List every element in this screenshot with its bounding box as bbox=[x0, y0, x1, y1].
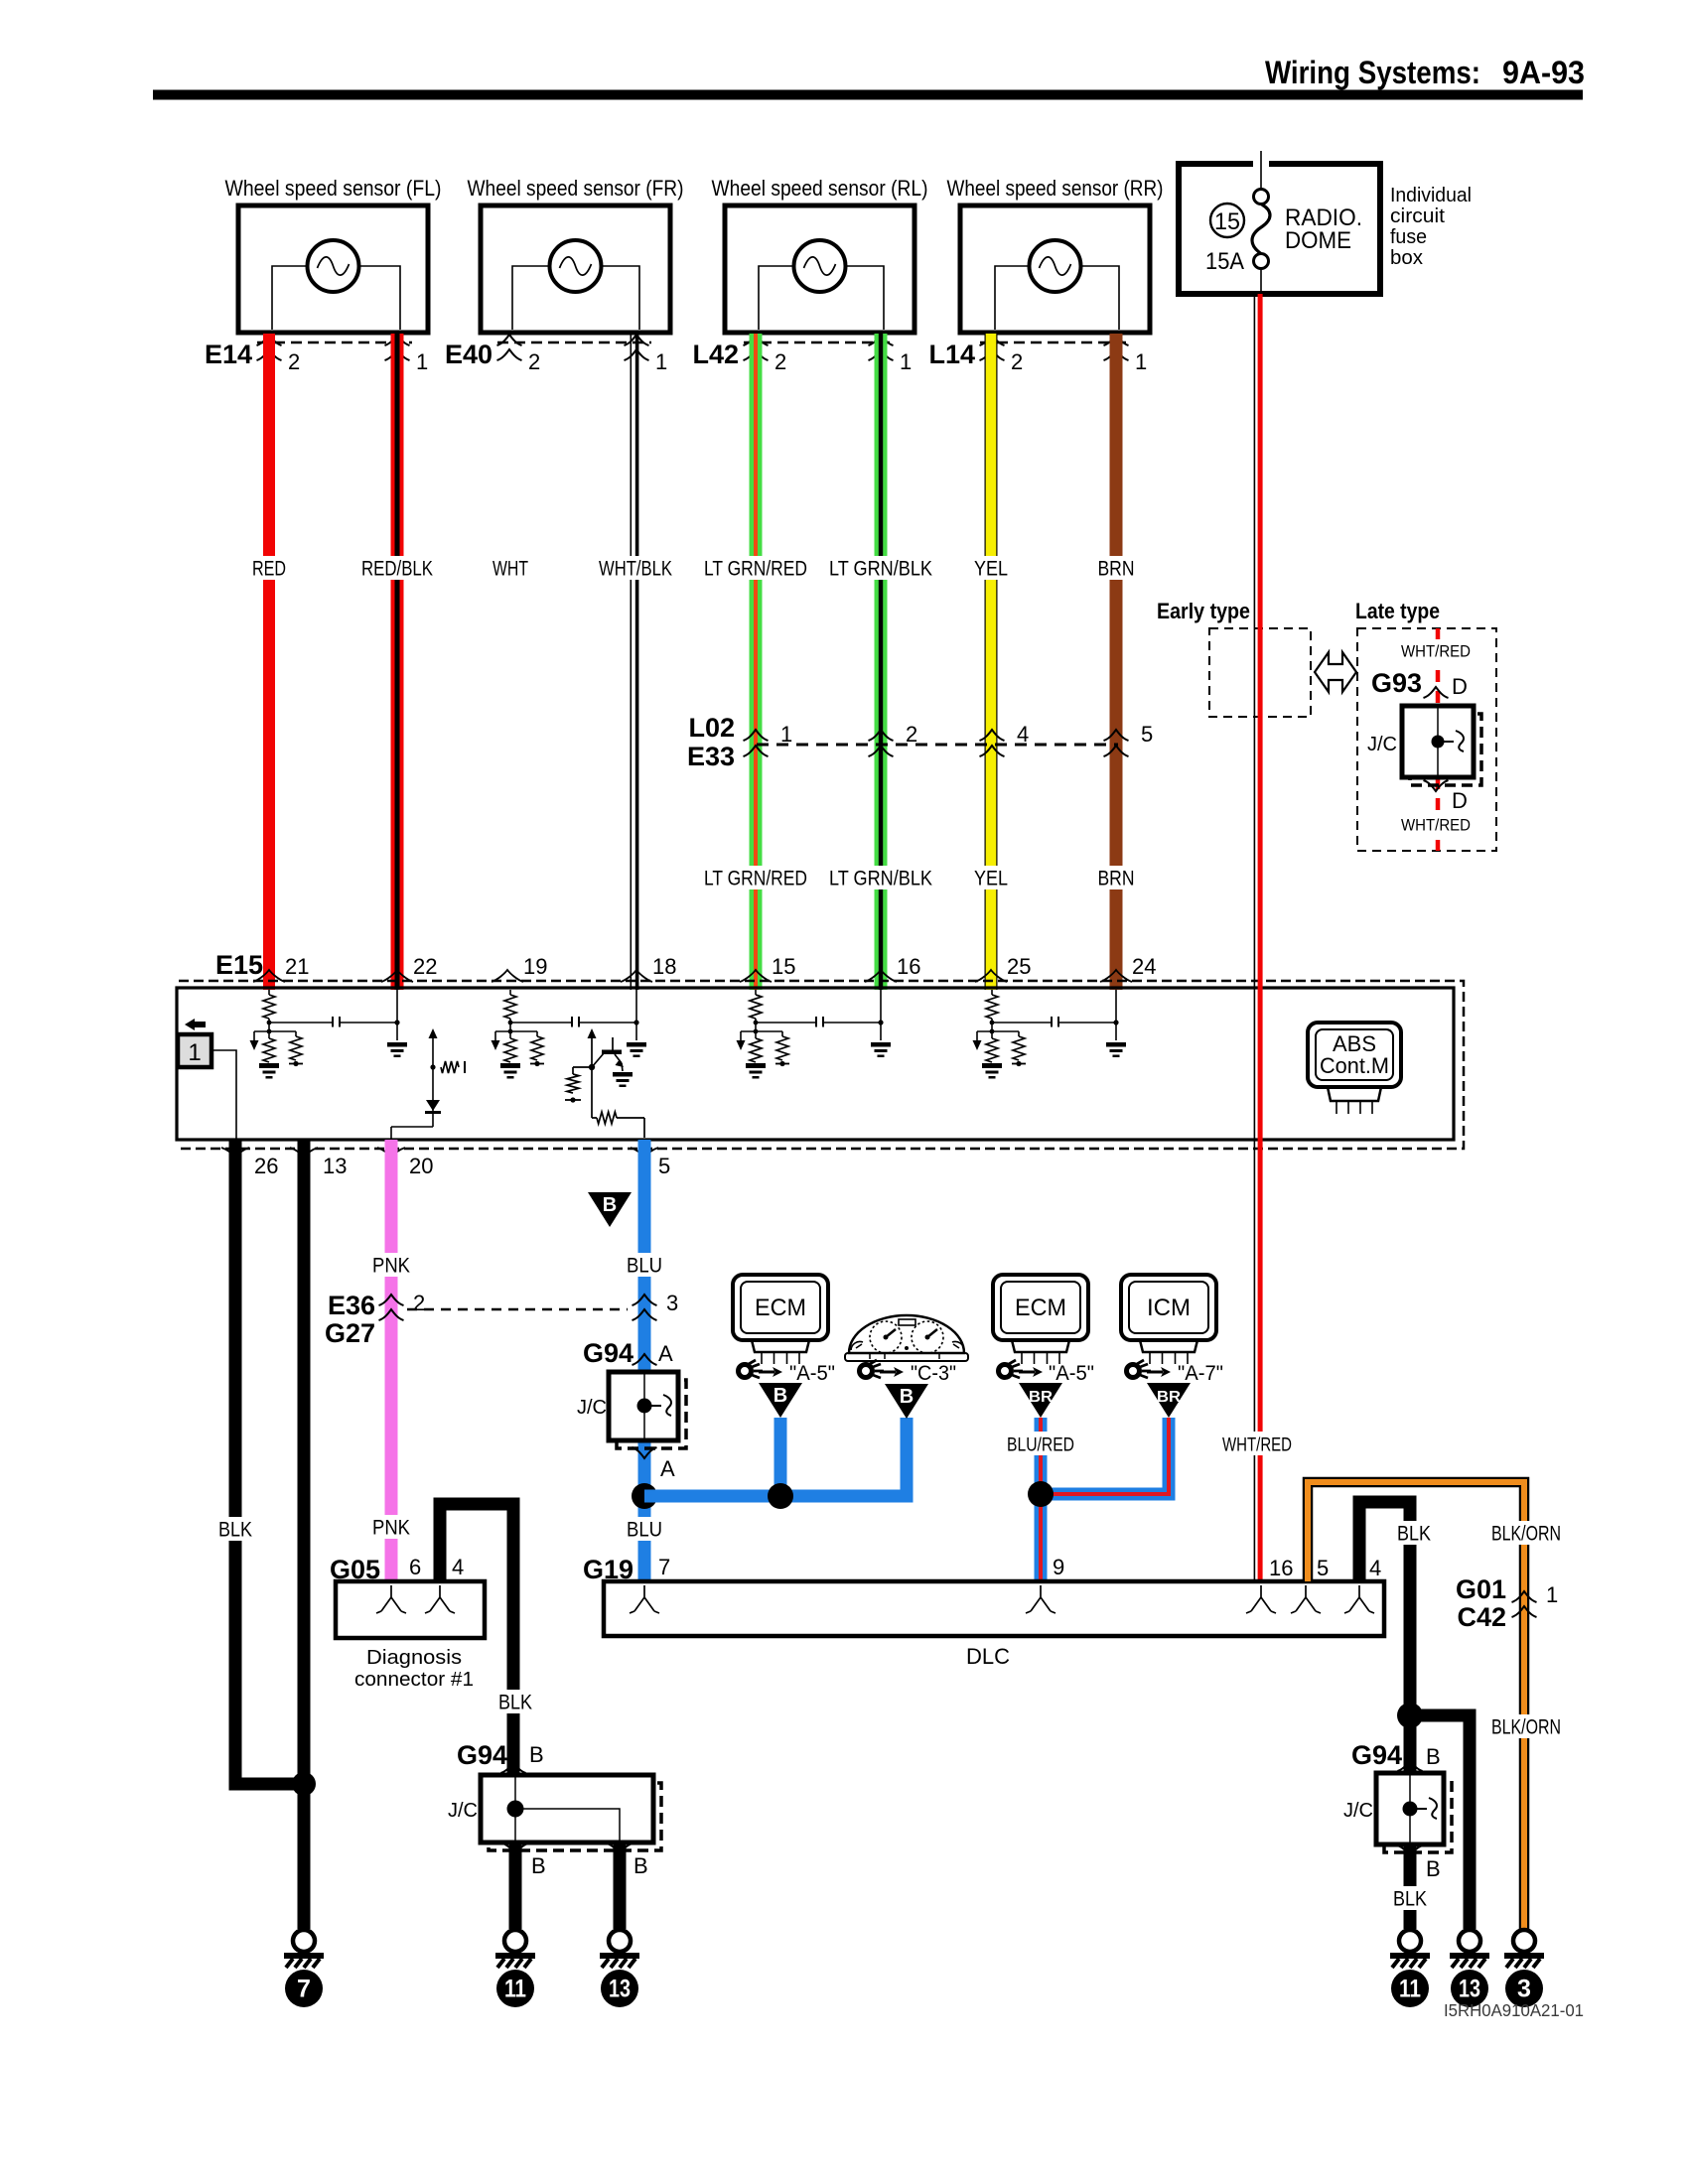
wire BLK (DLC-4) bbox=[1359, 1502, 1410, 1773]
svg-text:E40: E40 bbox=[445, 340, 492, 369]
fuse 15 RADIO.DOME bbox=[1260, 151, 1262, 292]
ground 3 bbox=[1513, 1930, 1535, 1952]
ref icon A-7 (ICM) bbox=[1127, 1360, 1152, 1378]
wire BLK pin26 bbox=[235, 1140, 304, 1784]
svg-text:DOME: DOME bbox=[1285, 227, 1351, 254]
DLC pin bbox=[1246, 1585, 1276, 1613]
svg-text:13: 13 bbox=[1459, 1976, 1480, 2003]
E15 pin 22 bbox=[381, 970, 413, 982]
svg-text:3: 3 bbox=[666, 1291, 678, 1315]
wire label BLK bbox=[214, 1517, 256, 1541]
svg-text:15A: 15A bbox=[1205, 248, 1244, 275]
svg-text:25: 25 bbox=[1007, 954, 1031, 979]
ground 13 bbox=[609, 1930, 631, 1952]
svg-text:D: D bbox=[1452, 674, 1468, 699]
junction BLU bbox=[632, 1483, 657, 1509]
svg-text:G05: G05 bbox=[330, 1555, 380, 1584]
svg-text:Cont.M: Cont.M bbox=[1320, 1053, 1389, 1078]
wire label PNK bbox=[368, 1253, 414, 1277]
pin 2 bbox=[497, 335, 522, 345]
svg-text:6: 6 bbox=[409, 1555, 421, 1579]
DLC pin bbox=[630, 1585, 659, 1613]
svg-text:"C-3": "C-3" bbox=[911, 1362, 956, 1385]
BLU bus wire bbox=[644, 1418, 907, 1496]
header rule bbox=[153, 90, 1583, 100]
svg-text:Wheel speed sensor (FR): Wheel speed sensor (FR) bbox=[468, 176, 684, 201]
svg-text:G01: G01 bbox=[1456, 1574, 1506, 1604]
svg-text:YEL: YEL bbox=[974, 558, 1008, 581]
svg-text:1: 1 bbox=[1546, 1582, 1558, 1607]
pin 2 bbox=[257, 335, 282, 345]
svg-text:G19: G19 bbox=[583, 1555, 633, 1584]
junction bbox=[292, 1772, 316, 1796]
svg-text:16: 16 bbox=[897, 954, 920, 979]
wire RED/BLK bbox=[391, 334, 404, 990]
DLC pin bbox=[1344, 1585, 1374, 1613]
svg-text:WHT/RED: WHT/RED bbox=[1401, 816, 1471, 835]
pin 2 bbox=[980, 335, 1005, 345]
wire label BLK bbox=[494, 1690, 536, 1713]
svg-text:7: 7 bbox=[297, 1976, 311, 2003]
E15 pin 19 bbox=[492, 970, 523, 982]
svg-text:"A-7": "A-7" bbox=[1178, 1362, 1223, 1385]
E36/G27 pin 2 bbox=[379, 1295, 404, 1305]
wire label BLK bbox=[1393, 1521, 1435, 1545]
wire LT GRN/RED bbox=[750, 334, 763, 990]
L02/E33 pin 4 bbox=[980, 730, 1005, 741]
ref icon A-5 (ECM right) bbox=[999, 1360, 1024, 1378]
svg-text:9: 9 bbox=[1053, 1555, 1064, 1579]
svg-text:ECM: ECM bbox=[1015, 1295, 1066, 1321]
wire PNK bbox=[385, 1140, 398, 1581]
sensor coil symbol bbox=[550, 240, 602, 292]
svg-text:3: 3 bbox=[1517, 1976, 1531, 2003]
ABS bottom pin 20 bbox=[377, 1148, 405, 1158]
E15 pin 21 bbox=[253, 970, 285, 982]
wire leads inside E40 bbox=[512, 266, 639, 330]
svg-text:D: D bbox=[1452, 788, 1468, 813]
svg-text:4: 4 bbox=[1369, 1556, 1381, 1580]
svg-text:2: 2 bbox=[413, 1291, 425, 1315]
svg-text:24: 24 bbox=[1132, 954, 1156, 979]
svg-text:RED/BLK: RED/BLK bbox=[361, 558, 433, 581]
ground 13 right bbox=[1459, 1930, 1480, 1952]
svg-text:connector #1: connector #1 bbox=[354, 1669, 474, 1691]
diode bbox=[426, 1100, 440, 1111]
svg-text:1: 1 bbox=[188, 1039, 201, 1066]
svg-text:2: 2 bbox=[528, 349, 540, 374]
wire label WHT/RED bbox=[1397, 639, 1475, 661]
svg-text:box: box bbox=[1390, 247, 1423, 269]
E15 pin 25 bbox=[975, 970, 1007, 982]
ABS control module box bbox=[177, 988, 1454, 1140]
wheel speed sensor box L14 bbox=[960, 205, 1150, 333]
svg-text:21: 21 bbox=[285, 954, 309, 979]
svg-text:L02: L02 bbox=[688, 713, 735, 743]
E15 pin 15 bbox=[740, 970, 772, 982]
svg-text:B: B bbox=[1426, 1856, 1441, 1881]
pin 1 bbox=[869, 335, 894, 345]
pin 1 bbox=[1104, 335, 1129, 345]
wire label WHT/RED bbox=[1218, 1432, 1296, 1455]
svg-text:L42: L42 bbox=[692, 340, 739, 369]
wire BLU/RED from ECM bbox=[1035, 1418, 1048, 1581]
svg-text:G94: G94 bbox=[1351, 1740, 1402, 1770]
svg-text:11: 11 bbox=[504, 1976, 526, 2003]
DLC pin bbox=[1026, 1585, 1055, 1613]
svg-text:BLU: BLU bbox=[627, 1255, 662, 1278]
E15 pin 24 bbox=[1100, 970, 1132, 982]
sensor coil symbol bbox=[1030, 240, 1081, 292]
wire label RED/BLK bbox=[357, 556, 437, 580]
wire YEL bbox=[985, 334, 998, 990]
wire label YEL bbox=[970, 866, 1012, 889]
pin 1 terminal box bbox=[185, 1019, 206, 1030]
svg-text:G93: G93 bbox=[1371, 668, 1422, 698]
Late type dashed box bbox=[1357, 628, 1496, 851]
svg-text:J/C: J/C bbox=[1343, 1800, 1373, 1822]
ground 7 bbox=[293, 1930, 315, 1952]
branch to ground 13 bbox=[1410, 1715, 1470, 1929]
svg-text:BLU: BLU bbox=[627, 1519, 662, 1542]
L02/E33 pin 2 bbox=[869, 730, 894, 741]
svg-text:BR: BR bbox=[1029, 1389, 1053, 1406]
svg-text:1: 1 bbox=[780, 722, 792, 747]
svg-text:BRN: BRN bbox=[1098, 868, 1135, 890]
module ICM bbox=[1121, 1275, 1216, 1340]
svg-text:18: 18 bbox=[652, 954, 676, 979]
svg-text:5: 5 bbox=[658, 1154, 670, 1178]
wire BLK/ORN (DLC-5 to ground 3) bbox=[1308, 1482, 1524, 1929]
svg-text:"A-5": "A-5" bbox=[1049, 1362, 1094, 1385]
wire label WHT/RED bbox=[1397, 813, 1475, 835]
svg-text:15: 15 bbox=[772, 954, 795, 979]
wire label BLK bbox=[1389, 1886, 1431, 1910]
sensor coil symbol bbox=[308, 240, 359, 292]
svg-text:J/C: J/C bbox=[448, 1800, 478, 1822]
svg-text:YEL: YEL bbox=[974, 868, 1008, 890]
wires to grounds bbox=[515, 1843, 620, 1929]
svg-text:1: 1 bbox=[1135, 349, 1147, 374]
ref icon A-5 (ECM left) bbox=[739, 1360, 764, 1378]
transistor Q bbox=[592, 1053, 604, 1067]
svg-text:circuit: circuit bbox=[1390, 205, 1445, 227]
DLC pin bbox=[1291, 1585, 1321, 1613]
svg-text:11: 11 bbox=[1399, 1976, 1421, 2003]
wire label LT GRN/BLK bbox=[825, 556, 936, 580]
svg-text:Wheel speed sensor (FL): Wheel speed sensor (FL) bbox=[225, 176, 442, 201]
wire RED bbox=[263, 334, 275, 990]
svg-text:E14: E14 bbox=[205, 340, 252, 369]
wire label WHT bbox=[489, 556, 532, 580]
wire label BLU bbox=[623, 1253, 666, 1277]
wheel speed sensor box L42 bbox=[725, 205, 914, 333]
svg-text:ECM: ECM bbox=[755, 1295, 806, 1321]
svg-text:G94: G94 bbox=[583, 1338, 633, 1368]
ABS Cont.M emblem bbox=[1308, 1023, 1401, 1087]
wire WHT/RED (fuse to DLC) bbox=[1254, 294, 1256, 1581]
pin 1 bbox=[385, 335, 410, 345]
wire label LT GRN/RED bbox=[700, 556, 811, 580]
svg-text:B: B bbox=[774, 1385, 787, 1407]
svg-text:LT GRN/BLK: LT GRN/BLK bbox=[829, 558, 932, 581]
wire leads inside L42 bbox=[759, 266, 884, 330]
L02/E33 pin 1 bbox=[744, 730, 769, 741]
svg-text:4: 4 bbox=[1017, 722, 1029, 747]
wire label YEL bbox=[970, 556, 1012, 580]
sensor coil symbol bbox=[794, 240, 846, 292]
pin 1 bbox=[625, 335, 649, 345]
svg-text:20: 20 bbox=[409, 1154, 433, 1178]
ground 11 bbox=[504, 1930, 526, 1952]
wire label PNK bbox=[368, 1515, 414, 1539]
pin 2 bbox=[744, 335, 769, 345]
E15 pin 18 bbox=[621, 970, 652, 982]
wire label LT GRN/BLK bbox=[825, 866, 936, 889]
svg-text:B: B bbox=[900, 1386, 914, 1408]
svg-text:B: B bbox=[1426, 1744, 1441, 1769]
svg-text:LT GRN/RED: LT GRN/RED bbox=[704, 868, 807, 890]
triangle B marker bbox=[588, 1192, 632, 1227]
svg-text:J/C: J/C bbox=[1367, 734, 1397, 755]
svg-text:Wiring Systems:: Wiring Systems: bbox=[1265, 55, 1480, 90]
svg-text:5: 5 bbox=[1317, 1556, 1329, 1580]
svg-text:1: 1 bbox=[900, 349, 912, 374]
svg-text:2: 2 bbox=[1011, 349, 1023, 374]
svg-text:DLC: DLC bbox=[966, 1644, 1010, 1669]
svg-text:LT GRN/BLK: LT GRN/BLK bbox=[829, 868, 932, 890]
svg-text:9A-93: 9A-93 bbox=[1502, 55, 1585, 90]
svg-text:1: 1 bbox=[416, 349, 428, 374]
svg-text:2: 2 bbox=[288, 349, 300, 374]
E36/G27 pin 3 bbox=[633, 1295, 657, 1305]
svg-text:B: B bbox=[603, 1194, 617, 1216]
svg-text:Late type: Late type bbox=[1355, 599, 1440, 623]
wire BLU/RED from ICM bbox=[1047, 1418, 1169, 1494]
wire label BLU bbox=[623, 1517, 666, 1541]
meter cluster icon bbox=[849, 1315, 964, 1353]
ABS bottom pin 26 bbox=[221, 1148, 249, 1158]
wire LT GRN/BLK bbox=[875, 334, 888, 990]
DLC box bbox=[604, 1581, 1384, 1636]
svg-text:2: 2 bbox=[906, 722, 917, 747]
L02/E33 pin 5 bbox=[1104, 730, 1129, 741]
svg-text:B: B bbox=[633, 1853, 648, 1878]
junction BLU bus bbox=[768, 1483, 793, 1509]
svg-text:BLK/ORN: BLK/ORN bbox=[1491, 1523, 1561, 1546]
svg-text:Diagnosis: Diagnosis bbox=[366, 1647, 462, 1669]
svg-text:BLK: BLK bbox=[1397, 1523, 1431, 1546]
svg-text:BLK/ORN: BLK/ORN bbox=[1491, 1716, 1561, 1739]
svg-text:L14: L14 bbox=[928, 340, 975, 369]
svg-text:7: 7 bbox=[658, 1555, 670, 1579]
wire label BRN bbox=[1094, 556, 1139, 580]
svg-text:15: 15 bbox=[1214, 208, 1240, 235]
svg-text:B: B bbox=[531, 1853, 546, 1878]
svg-text:BRN: BRN bbox=[1098, 558, 1135, 581]
wire BLK G05-4 to G94 bbox=[440, 1504, 513, 1775]
svg-text:I5RH0A910A21-01: I5RH0A910A21-01 bbox=[1444, 2000, 1584, 2020]
sensor input circuit pins bbox=[755, 990, 757, 995]
wire leads inside E14 bbox=[272, 266, 400, 330]
svg-text:5: 5 bbox=[1141, 722, 1153, 747]
svg-text:RED: RED bbox=[252, 558, 286, 581]
svg-text:WHT/RED: WHT/RED bbox=[1401, 642, 1471, 661]
svg-text:B: B bbox=[529, 1742, 544, 1767]
svg-text:1: 1 bbox=[655, 349, 667, 374]
wire label BLK/ORN bbox=[1487, 1521, 1565, 1545]
svg-text:BR: BR bbox=[1157, 1389, 1181, 1406]
wire label RED bbox=[248, 556, 290, 580]
svg-text:WHT: WHT bbox=[492, 558, 528, 581]
svg-text:13: 13 bbox=[609, 1976, 631, 2003]
svg-text:LT GRN/RED: LT GRN/RED bbox=[704, 558, 807, 581]
ref icon C-3 (meter) bbox=[860, 1360, 885, 1378]
svg-text:Early type: Early type bbox=[1157, 599, 1250, 623]
svg-text:C42: C42 bbox=[1457, 1602, 1506, 1632]
double arrow symbol bbox=[1315, 652, 1356, 692]
svg-text:A: A bbox=[660, 1456, 675, 1481]
sensor input circuit pins bbox=[991, 990, 993, 995]
svg-text:WHT/RED: WHT/RED bbox=[1222, 1435, 1292, 1456]
wire WHT/RED (late type, dashed) bbox=[1436, 628, 1441, 851]
wire label BLU/RED bbox=[1003, 1432, 1078, 1455]
module ECM bbox=[733, 1275, 828, 1340]
Early type dashed box bbox=[1209, 628, 1311, 717]
wheel speed sensor box E40 bbox=[481, 205, 670, 333]
svg-text:PNK: PNK bbox=[372, 1255, 410, 1278]
junction BLU/RED bbox=[1028, 1481, 1054, 1507]
wire label WHT/BLK bbox=[595, 556, 676, 580]
sensor input circuit pins bbox=[268, 990, 270, 995]
ground 11 right bbox=[1399, 1930, 1421, 1952]
svg-text:22: 22 bbox=[413, 954, 437, 979]
G05 diagnosis connector box bbox=[336, 1581, 485, 1638]
wire leads inside L14 bbox=[995, 266, 1119, 330]
svg-text:Wheel speed sensor (RL): Wheel speed sensor (RL) bbox=[712, 176, 928, 201]
svg-text:G27: G27 bbox=[325, 1318, 375, 1348]
svg-text:E15: E15 bbox=[215, 950, 263, 980]
svg-text:13: 13 bbox=[323, 1154, 347, 1178]
svg-text:A: A bbox=[658, 1341, 673, 1366]
module ECM bbox=[993, 1275, 1088, 1340]
wire BLK pin13 bbox=[298, 1140, 311, 1929]
wire ECM-B to bus bbox=[759, 1383, 802, 1418]
wire BRN bbox=[1110, 334, 1123, 990]
svg-text:BLK: BLK bbox=[218, 1519, 252, 1542]
svg-text:2: 2 bbox=[774, 349, 786, 374]
svg-text:E36: E36 bbox=[328, 1291, 375, 1320]
svg-text:26: 26 bbox=[254, 1154, 278, 1178]
wire WHT/BLK bbox=[631, 334, 633, 990]
svg-text:BLK: BLK bbox=[1393, 1888, 1427, 1911]
ABS bottom pin 13 bbox=[290, 1148, 318, 1158]
E15 pin 16 bbox=[865, 970, 897, 982]
internal pump driver circuit bbox=[429, 1028, 438, 1038]
svg-text:fuse: fuse bbox=[1390, 226, 1427, 248]
internal transistor circuit bbox=[588, 1028, 597, 1038]
svg-text:BLU/RED: BLU/RED bbox=[1007, 1435, 1074, 1456]
svg-text:J/C: J/C bbox=[577, 1397, 607, 1419]
svg-text:BLK: BLK bbox=[498, 1692, 532, 1714]
wire label BRN bbox=[1094, 866, 1139, 889]
ABS controller dashed connector outline bbox=[179, 981, 1464, 1149]
wire BLU bbox=[638, 1140, 651, 1372]
wire label LT GRN/RED bbox=[700, 866, 811, 889]
wire from pin1 box bbox=[211, 1050, 236, 1140]
svg-text:"A-5": "A-5" bbox=[789, 1362, 835, 1385]
wire label BLK/ORN bbox=[1487, 1714, 1565, 1738]
svg-text:G94: G94 bbox=[457, 1740, 507, 1770]
svg-text:4: 4 bbox=[452, 1555, 464, 1579]
svg-text:ICM: ICM bbox=[1147, 1295, 1191, 1321]
svg-text:Wheel speed sensor (RR): Wheel speed sensor (RR) bbox=[947, 176, 1164, 201]
individual circuit fuse box bbox=[1179, 164, 1380, 294]
svg-text:E33: E33 bbox=[687, 742, 735, 771]
svg-text:16: 16 bbox=[1269, 1556, 1293, 1580]
sensor input circuit pins bbox=[509, 990, 511, 995]
svg-text:Individual: Individual bbox=[1390, 185, 1472, 206]
svg-text:WHT/BLK: WHT/BLK bbox=[599, 558, 672, 581]
junction BLK right bbox=[1397, 1703, 1423, 1728]
svg-text:19: 19 bbox=[523, 954, 547, 979]
wheel speed sensor box E14 bbox=[238, 205, 428, 333]
svg-text:PNK: PNK bbox=[372, 1517, 410, 1540]
ABS bottom pin 5 bbox=[631, 1148, 658, 1158]
